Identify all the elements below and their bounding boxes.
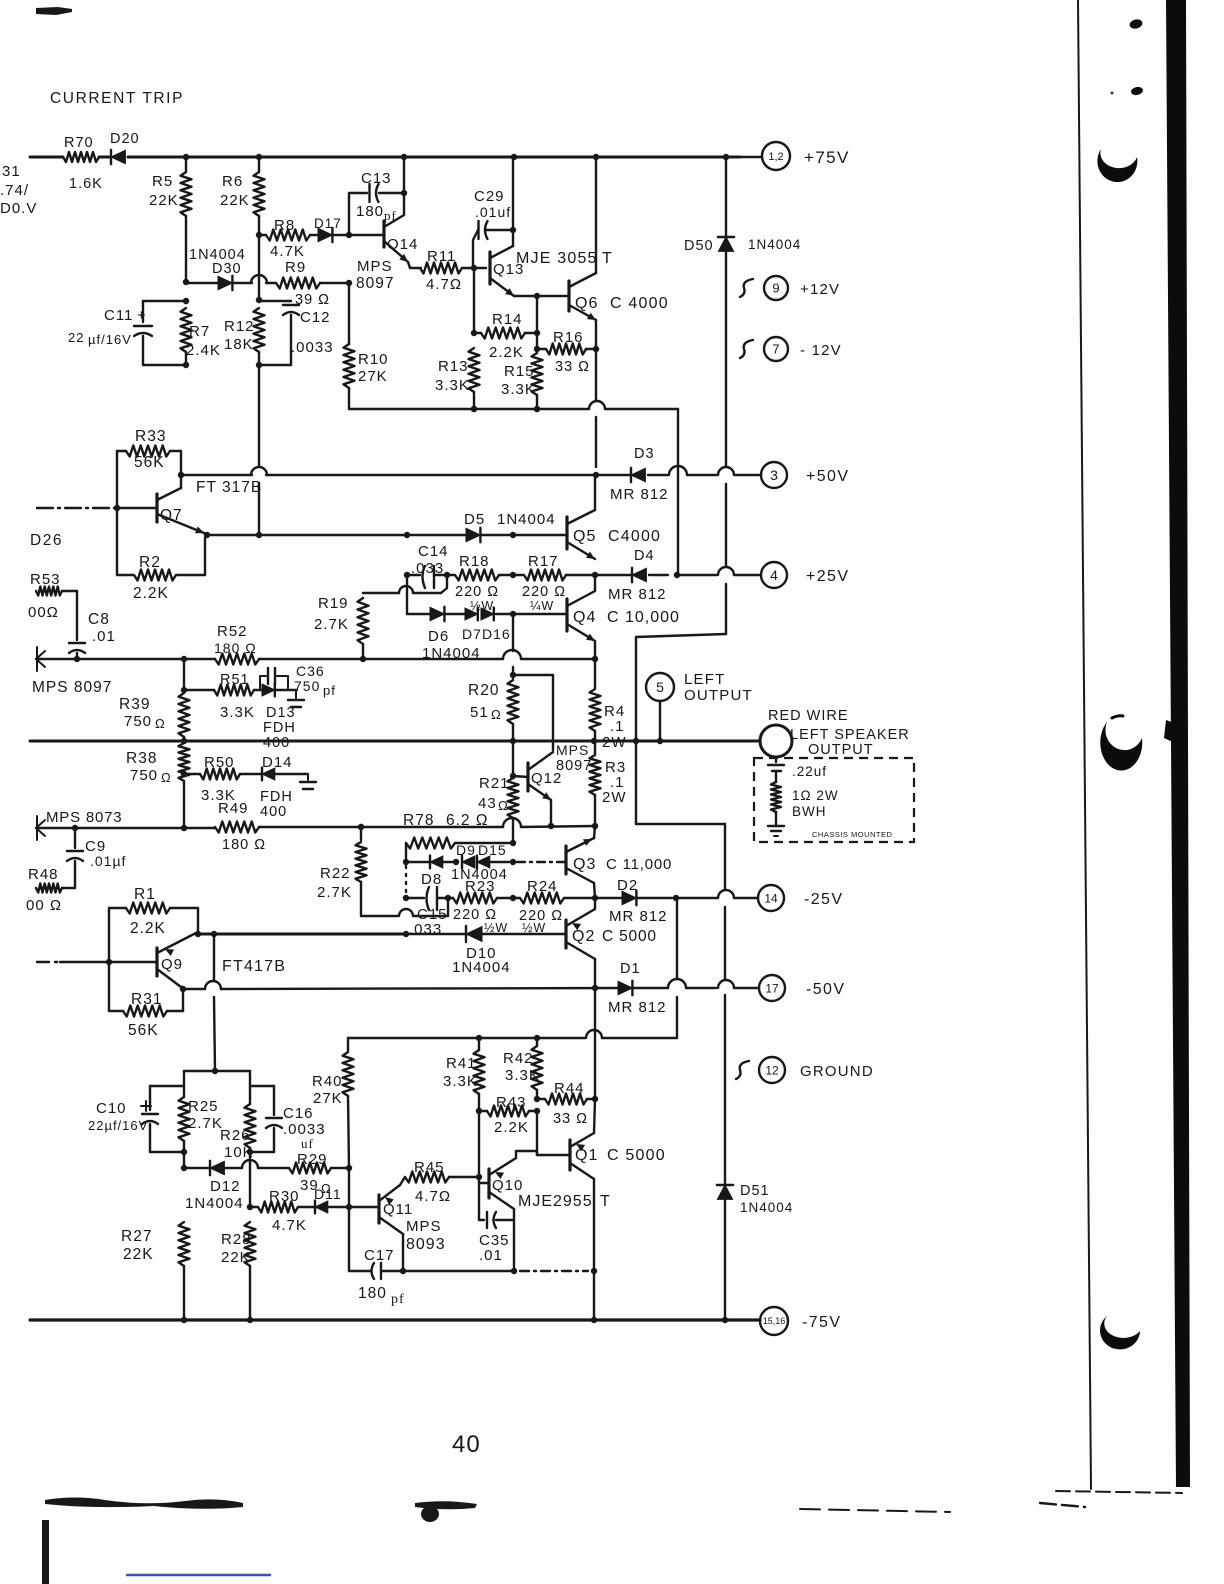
capacitor C14	[404, 572, 410, 578]
svg-text:27K: 27K	[313, 1090, 343, 1107]
diode D8	[430, 856, 443, 868]
svg-text:3: 3	[770, 467, 778, 483]
resistor R42	[536, 1038, 538, 1046]
svg-text:R39: R39	[119, 696, 150, 713]
svg-text:R52: R52	[217, 623, 248, 640]
svg-text:D5: D5	[464, 511, 485, 528]
pin arrow left margin R49 rail	[36, 820, 45, 828]
svg-text:R44: R44	[554, 1080, 585, 1097]
svg-text:C8: C8	[88, 611, 110, 628]
scan artifact: bottom-left edge bar	[42, 1520, 49, 1584]
svg-text:R31: R31	[131, 991, 162, 1008]
diode D15	[477, 856, 490, 868]
svg-text:+12V: +12V	[800, 281, 840, 298]
diode D9	[462, 856, 475, 868]
svg-text:R14: R14	[492, 311, 523, 328]
svg-text:220 Ω: 220 Ω	[455, 584, 499, 600]
resistor R5	[185, 157, 187, 172]
wire bottom sub rail	[403, 1270, 514, 1272]
svg-text:56K: 56K	[134, 454, 165, 471]
svg-text:MJE2955: MJE2955	[518, 1193, 593, 1210]
resistor R7	[181, 308, 192, 352]
terminal 1,2 +75V	[740, 156, 762, 158]
wire Q9 base line	[37, 961, 60, 963]
svg-text:2.7K: 2.7K	[317, 884, 352, 901]
capacitor C15	[403, 895, 409, 901]
transistor Q2	[564, 920, 567, 948]
svg-text:3.3K: 3.3K	[443, 1073, 478, 1090]
svg-text:D6: D6	[428, 628, 449, 645]
scan artifact: small ink dots top right	[1129, 18, 1144, 30]
svg-text:Q5: Q5	[573, 528, 596, 545]
diode D7	[465, 608, 478, 620]
svg-text:R1: R1	[134, 886, 156, 903]
svg-text:uf: uf	[301, 1136, 314, 1151]
svg-text:Q6: Q6	[575, 295, 598, 312]
svg-text:+: +	[137, 307, 147, 324]
wire right spine +25V to output rail	[725, 584, 727, 634]
svg-text:MR 812: MR 812	[608, 586, 667, 603]
svg-text:2W: 2W	[602, 789, 627, 806]
svg-text:15,16: 15,16	[763, 1316, 786, 1326]
svg-text:FDH: FDH	[263, 720, 296, 736]
capacitor C12	[259, 300, 291, 302]
svg-text:1N4004: 1N4004	[740, 1200, 793, 1215]
svg-text:1N4004: 1N4004	[185, 1195, 244, 1212]
svg-text:D8: D8	[421, 871, 442, 888]
capacitor C36	[259, 676, 261, 690]
svg-text:MJE 3055: MJE 3055	[516, 250, 598, 267]
diode D11	[315, 1201, 328, 1213]
node dot Q14 base	[346, 232, 352, 238]
svg-text:Q7: Q7	[160, 507, 183, 524]
svg-text:4.7Ω: 4.7Ω	[415, 1188, 451, 1205]
transistor Q11	[377, 1195, 380, 1223]
diode D5	[466, 528, 480, 542]
resistor R44	[537, 1098, 545, 1100]
svg-text:R19: R19	[318, 595, 349, 612]
wire D6 D7 D16 row	[406, 575, 408, 614]
wire Q1 collector from -50V rail	[594, 988, 596, 1099]
capacitor .22uf in zobel	[775, 757, 777, 762]
svg-text:22K: 22K	[149, 192, 179, 209]
svg-text:C 10,000: C 10,000	[607, 609, 680, 626]
svg-text:pf: pf	[323, 683, 336, 698]
resistor R70	[63, 152, 99, 162]
svg-text:R17: R17	[528, 553, 559, 570]
terminal 15,16 -75V	[760, 1307, 788, 1335]
svg-text:R6: R6	[222, 173, 243, 190]
resistor R12	[256, 297, 262, 303]
svg-text:1Ω 2W: 1Ω 2W	[792, 788, 839, 803]
resistor R9	[276, 278, 320, 289]
svg-text:R48: R48	[28, 866, 59, 883]
svg-text:D20: D20	[110, 131, 140, 147]
diode D3	[631, 468, 645, 482]
resistor R24	[513, 897, 520, 899]
svg-text:D3: D3	[634, 446, 655, 462]
svg-text:9: 9	[772, 281, 779, 296]
svg-text:R22: R22	[320, 865, 351, 882]
svg-text:CHASSIS MOUNTED: CHASSIS MOUNTED	[812, 830, 893, 839]
svg-text:C13: C13	[361, 170, 392, 187]
svg-text:.74/: .74/	[0, 182, 29, 199]
svg-text:RED WIRE: RED WIRE	[768, 708, 849, 724]
resistor R22	[358, 824, 364, 830]
diode D13	[254, 689, 262, 691]
svg-text:6.2 Ω: 6.2 Ω	[446, 812, 488, 829]
scan artifact: crescent mark 2	[1100, 722, 1142, 771]
svg-text:.1: .1	[610, 718, 625, 735]
wire +50V rail hops and terminal 3	[669, 466, 687, 475]
wire dashed to Q3 base	[517, 861, 566, 863]
svg-text:R51: R51	[220, 672, 250, 688]
svg-text:+75V: +75V	[804, 148, 850, 167]
resistor R21	[512, 741, 514, 776]
resistor 1 ohm 2W BWH in zobel	[771, 782, 781, 812]
svg-text:7: 7	[772, 342, 779, 357]
capacitor C17	[349, 1270, 371, 1272]
resistor R53 stub	[36, 587, 62, 596]
svg-text:180 Ω: 180 Ω	[214, 640, 257, 656]
wire top bar of bias block	[212, 1068, 218, 1074]
svg-text:D9: D9	[456, 842, 476, 858]
resistor R48 stub	[36, 884, 62, 893]
diode D10	[466, 927, 482, 942]
svg-text:MPS: MPS	[556, 742, 589, 758]
wire R11 row	[408, 262, 410, 268]
svg-text:C17: C17	[364, 1247, 395, 1264]
svg-text:R30: R30	[269, 1188, 300, 1205]
wire R12 node down to Q7 emitter line	[258, 365, 260, 467]
svg-text:D16: D16	[482, 626, 511, 642]
svg-text:2.2K: 2.2K	[494, 1119, 529, 1136]
transistor Q9	[155, 948, 158, 976]
svg-text:FT417B: FT417B	[222, 958, 286, 975]
svg-text:Q1: Q1	[575, 1147, 598, 1164]
svg-text:14: 14	[764, 891, 778, 905]
svg-text:OUTPUT: OUTPUT	[684, 687, 753, 704]
svg-text:MPS 8097: MPS 8097	[32, 679, 112, 696]
resistor R41	[478, 1038, 480, 1050]
svg-text:56K: 56K	[128, 1022, 159, 1039]
svg-text:.01: .01	[92, 628, 116, 645]
resistor R26	[245, 1104, 256, 1148]
wire R30 row	[247, 1204, 253, 1210]
svg-text:MR 812: MR 812	[609, 908, 668, 925]
svg-text:22K: 22K	[220, 192, 250, 209]
svg-text:R2: R2	[139, 554, 161, 571]
svg-text:4.7K: 4.7K	[272, 1217, 307, 1234]
svg-text:R78: R78	[403, 812, 434, 829]
svg-text:.0033: .0033	[291, 339, 334, 356]
diode D14	[262, 768, 275, 780]
svg-text:Ω: Ω	[491, 707, 502, 722]
svg-text:C 4000: C 4000	[610, 295, 669, 312]
svg-text:Q14: Q14	[387, 236, 418, 253]
svg-text:Q3: Q3	[573, 856, 596, 873]
wire Q6 emitter down through block rail	[595, 320, 597, 349]
diode D6	[430, 607, 444, 621]
svg-text:D11: D11	[314, 1186, 342, 1202]
resistor R51	[184, 689, 214, 691]
dashed box chassis mounted zobel	[754, 758, 914, 842]
terminal 9 +12V	[740, 279, 753, 297]
svg-text:R38: R38	[126, 750, 157, 767]
svg-text:+50V: +50V	[806, 468, 849, 485]
svg-text:D7: D7	[462, 626, 482, 642]
svg-text:D4: D4	[634, 548, 655, 564]
resistor R28	[245, 1222, 256, 1266]
capacitor C11	[183, 298, 189, 304]
transistor Q5	[565, 517, 568, 549]
svg-text:R41: R41	[446, 1055, 477, 1072]
svg-text:- 12V: - 12V	[800, 342, 842, 359]
resistor R2	[116, 508, 118, 575]
svg-text:1N4004: 1N4004	[452, 959, 511, 976]
svg-text:R29: R29	[297, 1151, 328, 1168]
svg-text:R28: R28	[221, 1231, 252, 1248]
svg-text:3.3K: 3.3K	[220, 704, 255, 721]
svg-text:MPS 8073: MPS 8073	[46, 809, 122, 826]
transistor Q4	[565, 599, 568, 631]
svg-text:C12: C12	[300, 309, 331, 326]
svg-text:R12: R12	[224, 318, 255, 335]
svg-text:pf: pf	[391, 1292, 405, 1307]
svg-text:R45: R45	[414, 1159, 445, 1176]
wire vertical feed to lower left block	[213, 934, 215, 981]
scan artifact: top-left corner mark	[36, 7, 72, 15]
resistor R17	[513, 574, 523, 576]
capacitor C13	[348, 193, 350, 235]
svg-text:R21: R21	[479, 775, 510, 792]
diode D4	[595, 574, 631, 576]
svg-text:1.6K: 1.6K	[69, 176, 103, 192]
resistor R23	[448, 897, 453, 899]
svg-text:4: 4	[770, 567, 778, 583]
svg-text:R13: R13	[438, 358, 469, 375]
svg-text:D12: D12	[210, 1178, 241, 1195]
transistor Q10	[487, 1169, 490, 1198]
svg-text:8097: 8097	[356, 275, 394, 292]
diode D30	[218, 276, 232, 290]
svg-text:R43: R43	[496, 1094, 527, 1111]
wire top block bottom rail	[349, 408, 589, 410]
wire +75V rail	[30, 156, 63, 159]
svg-text:R18: R18	[459, 553, 490, 570]
svg-text:2.4K: 2.4K	[186, 342, 221, 359]
wire D10 row Q9 collector line	[196, 933, 406, 936]
svg-text:R5: R5	[152, 173, 173, 190]
svg-text:4.7Ω: 4.7Ω	[426, 276, 462, 293]
svg-text:2.7K: 2.7K	[188, 1115, 223, 1132]
svg-text:+25V: +25V	[806, 568, 849, 585]
wire dashed input to Q7 base	[114, 505, 120, 511]
resistor R14	[474, 332, 481, 334]
svg-text:R24: R24	[527, 878, 558, 895]
svg-text:1,2: 1,2	[768, 151, 783, 163]
wire Q10 base column	[478, 1111, 480, 1177]
wire right spine output rail to -25V	[635, 741, 637, 824]
resistor R15	[536, 333, 538, 352]
wire sub rail -25V feed	[348, 1037, 585, 1039]
diode D50 on right spine	[725, 157, 727, 237]
diode D16	[481, 608, 494, 620]
svg-text:33 Ω: 33 Ω	[555, 359, 590, 375]
svg-text:Q4: Q4	[573, 609, 596, 626]
svg-text:-50V: -50V	[806, 981, 845, 998]
svg-text:R8: R8	[274, 217, 295, 234]
svg-text:Ω: Ω	[155, 716, 166, 731]
svg-text:Ω: Ω	[498, 798, 509, 813]
svg-text:OUTPUT: OUTPUT	[808, 742, 874, 758]
svg-text:Q11: Q11	[383, 1201, 413, 1218]
chassis bars below D13	[295, 690, 297, 698]
svg-text:.033: .033	[409, 921, 442, 938]
capacitor C29	[510, 227, 516, 233]
svg-text:.033: .033	[411, 560, 444, 577]
svg-text:R9: R9	[285, 259, 306, 276]
scan artifact: crescent mark 1	[1097, 149, 1137, 182]
resistor R27	[179, 1222, 190, 1266]
svg-text:43: 43	[478, 795, 497, 812]
svg-text:R26: R26	[220, 1127, 251, 1144]
svg-text:Ω: Ω	[161, 770, 172, 785]
svg-text:R40: R40	[312, 1073, 343, 1090]
svg-text:180: 180	[358, 1285, 387, 1302]
capacitor C10	[150, 1085, 184, 1087]
svg-text:8097: 8097	[556, 758, 592, 774]
transistor Q12	[526, 763, 529, 791]
svg-text:22µf/16V: 22µf/16V	[88, 1118, 148, 1133]
resistor R20	[512, 614, 514, 651]
wire R20 node to Q12 collector	[513, 674, 553, 676]
node dots on +75V rail	[183, 154, 189, 160]
resistor R3	[594, 741, 596, 754]
terminal 12 GROUND	[736, 1061, 749, 1079]
svg-text:180: 180	[356, 203, 384, 220]
resistor R45	[405, 1172, 449, 1183]
wire Q7 emitter line to Q5 base	[204, 532, 210, 538]
transistor Q1	[536, 1111, 538, 1155]
capacitor C9	[74, 828, 76, 848]
resistor R39	[183, 659, 185, 690]
svg-text:18K: 18K	[224, 336, 254, 353]
wire D12 row	[181, 1165, 187, 1171]
svg-text:R25: R25	[188, 1098, 219, 1115]
diode D2	[595, 897, 622, 899]
wire dashed C15 left leg	[405, 866, 407, 896]
svg-text:MR 812: MR 812	[610, 486, 669, 503]
svg-text:T: T	[602, 250, 613, 267]
svg-text:D0.V: D0.V	[0, 200, 37, 217]
resistor R49	[215, 822, 259, 833]
wire -75V rail	[30, 1318, 760, 1321]
svg-text:D30: D30	[212, 261, 242, 277]
diode D51 on right spine	[724, 995, 726, 1185]
svg-text:22K: 22K	[123, 1246, 154, 1263]
wire right spine +50V to +25V	[725, 484, 727, 566]
resistor R16	[537, 348, 545, 350]
terminal 7 -12V	[740, 340, 753, 358]
svg-text:51: 51	[470, 704, 489, 721]
transistor Q13	[488, 252, 491, 284]
resistor R52	[215, 654, 259, 665]
svg-text:.01: .01	[479, 1247, 503, 1264]
ground symbol in zobel	[768, 825, 784, 827]
svg-text:T: T	[600, 1193, 611, 1210]
wire D30 row	[183, 279, 189, 285]
svg-text:750: 750	[294, 678, 320, 694]
scan artifact: crescent mark 3	[1100, 1316, 1140, 1349]
wire R52 rail	[36, 658, 215, 660]
svg-text:R33: R33	[135, 428, 166, 445]
svg-text:D26: D26	[30, 532, 63, 549]
svg-text:C4000: C4000	[608, 528, 661, 545]
svg-text:3.3K: 3.3K	[505, 1067, 540, 1084]
svg-text:R42: R42	[503, 1050, 534, 1067]
svg-text:LEFT: LEFT	[684, 671, 725, 688]
scan artifact: right page-edge thin line	[1078, 0, 1091, 1489]
resistor R13	[473, 268, 475, 333]
wire -50V rail	[180, 986, 186, 992]
svg-text:.01µf: .01µf	[90, 853, 126, 869]
svg-text:40: 40	[452, 1431, 481, 1458]
transistor Q14	[382, 221, 385, 247]
svg-text:8093: 8093	[406, 1236, 446, 1253]
svg-text:C10: C10	[96, 1100, 127, 1117]
svg-text:Q10: Q10	[492, 1177, 523, 1194]
svg-text:BWH: BWH	[792, 804, 827, 819]
svg-text:2W: 2W	[602, 734, 627, 751]
svg-text:2.2K: 2.2K	[130, 920, 166, 937]
svg-text:3.3K: 3.3K	[435, 377, 470, 394]
transistor Q3	[564, 846, 567, 874]
svg-text:MR 812: MR 812	[608, 999, 667, 1016]
diode D1	[618, 981, 632, 995]
svg-text:31: 31	[2, 163, 21, 180]
svg-text:22K: 22K	[221, 1249, 251, 1266]
svg-text:39 Ω: 39 Ω	[295, 292, 330, 308]
pin arrow left margin R52 rail	[36, 651, 45, 659]
wire D8 D9 D15 row	[403, 859, 409, 865]
capacitor C35	[479, 1219, 484, 1221]
svg-text:R49: R49	[218, 800, 249, 817]
svg-text:Q9: Q9	[161, 956, 183, 973]
diode D17	[318, 228, 332, 242]
wire left speaker output rail	[30, 740, 760, 743]
svg-text:1N4004: 1N4004	[497, 511, 556, 528]
svg-text:-75V: -75V	[802, 1314, 841, 1331]
svg-text:C11: C11	[104, 307, 133, 324]
resistor R31	[108, 962, 110, 1011]
svg-text:12: 12	[765, 1063, 779, 1077]
svg-text:400: 400	[263, 735, 290, 751]
svg-text:R20: R20	[468, 682, 499, 699]
svg-text:R10: R10	[358, 351, 389, 368]
scan artifact: right black binder bar	[1166, 0, 1190, 1487]
svg-text:00 Ω: 00 Ω	[26, 897, 62, 914]
resistor R33	[126, 446, 170, 457]
transistor Q7	[155, 494, 158, 522]
svg-text:R7: R7	[189, 323, 210, 340]
wire Q13 emitter to Q6 base	[514, 295, 537, 297]
svg-text:C 11,000: C 11,000	[606, 856, 672, 873]
transistor Q6	[567, 281, 570, 311]
wire -50V rail hops to terminal 17	[668, 979, 686, 988]
resistor R25	[179, 1097, 190, 1141]
wire right spine D50 to +50V bump	[725, 252, 727, 467]
